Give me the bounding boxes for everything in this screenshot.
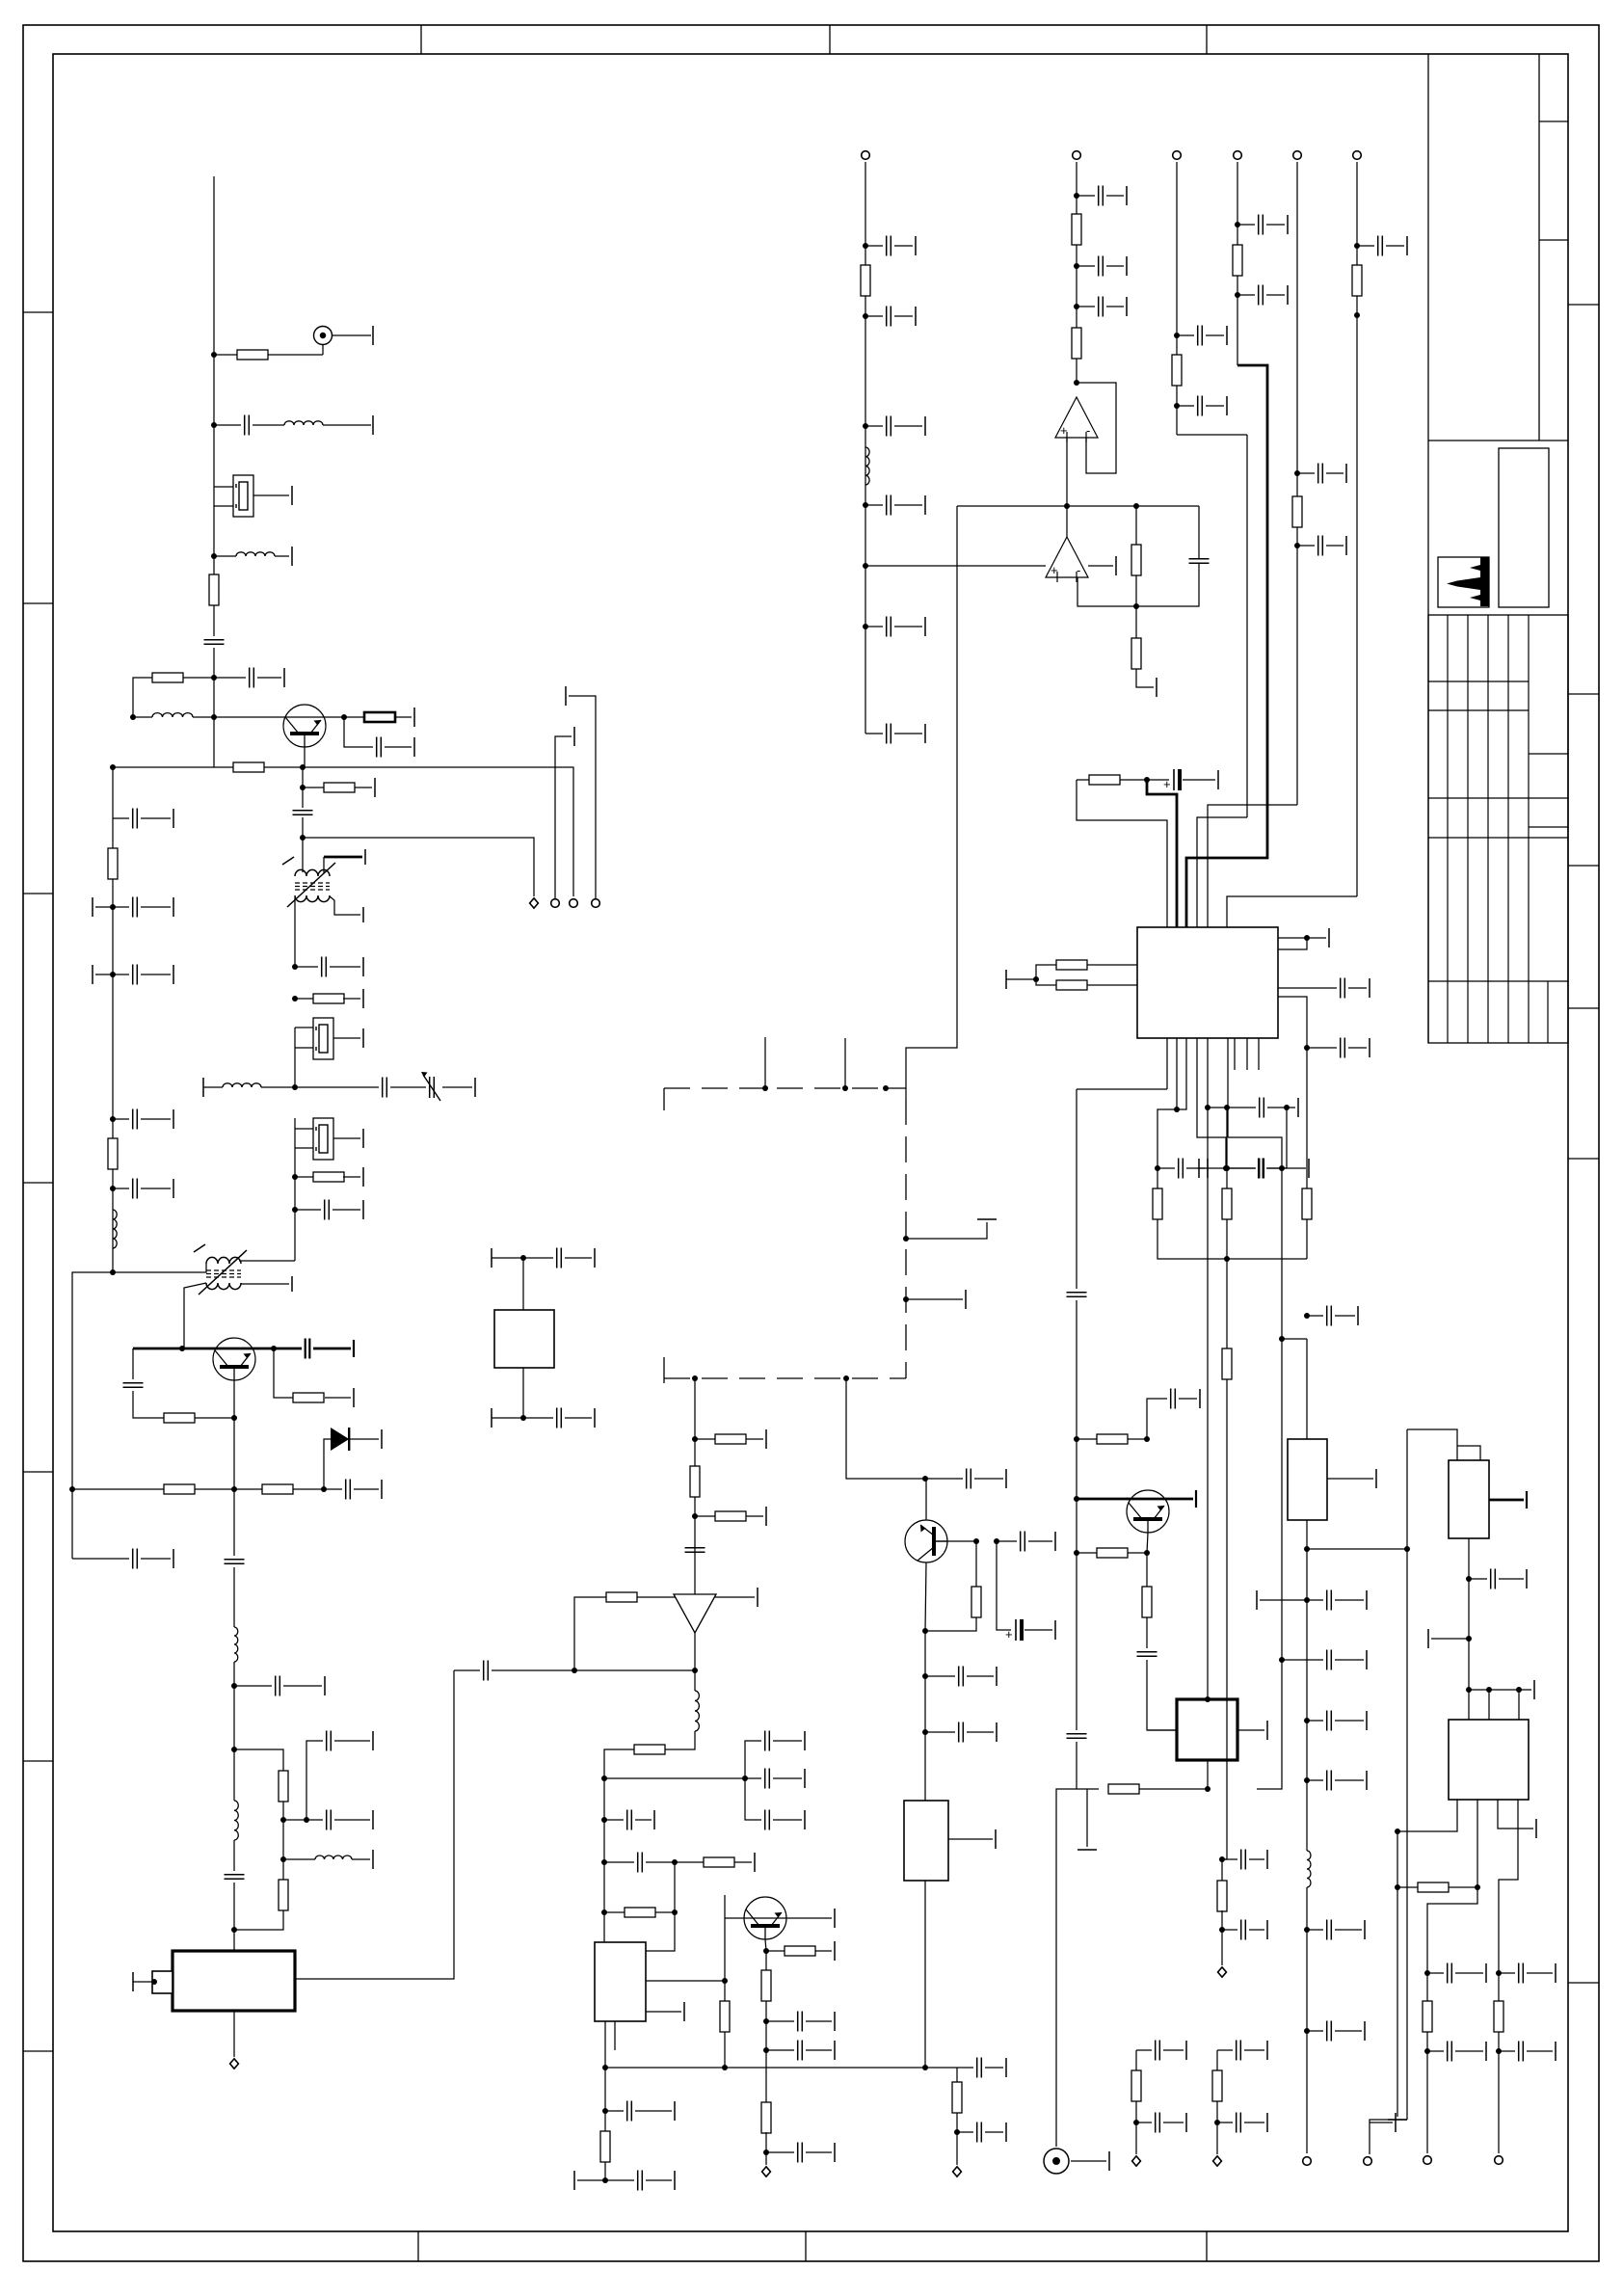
R31	[861, 265, 870, 296]
junction	[722, 2065, 728, 2070]
wire	[350, 1438, 379, 1440]
L6	[234, 1627, 238, 1662]
wire	[766, 1950, 785, 1952]
terminal	[995, 1829, 997, 1849]
svg-text:+: +	[1163, 777, 1171, 791]
U3	[1137, 927, 1278, 1038]
wire	[806, 2020, 832, 2022]
wire	[1244, 2122, 1264, 2123]
wire	[454, 1669, 480, 1671]
wire	[1260, 1599, 1307, 1601]
wire	[765, 1951, 767, 1970]
junction	[602, 2108, 608, 2114]
junction	[922, 1476, 928, 1482]
junction	[762, 1085, 768, 1091]
capacitor C2	[887, 307, 891, 327]
wire	[894, 245, 913, 247]
junction	[1205, 1696, 1211, 1702]
wire	[72, 1272, 113, 1489]
wire	[343, 1176, 360, 1178]
wire	[1469, 1689, 1531, 1691]
title block left edge	[1427, 54, 1429, 1043]
terminal	[1126, 297, 1128, 316]
wire	[604, 1861, 634, 1863]
wire	[214, 486, 233, 488]
wire	[894, 733, 922, 734]
wire	[1348, 987, 1367, 989]
R28	[600, 2131, 610, 2162]
R41	[1056, 960, 1087, 970]
junction	[1074, 193, 1079, 199]
wire	[71, 1489, 73, 1559]
wire	[1267, 1107, 1287, 1108]
connector pin	[530, 898, 539, 908]
wire	[1455, 1972, 1483, 1974]
bold wire	[313, 1348, 351, 1350]
connector pin	[862, 151, 870, 160]
junction	[572, 1668, 577, 1673]
title strip row	[1539, 120, 1568, 122]
terminal	[1533, 1680, 1535, 1699]
wire	[765, 2001, 767, 2103]
wire	[233, 1840, 235, 1871]
R55	[1222, 1348, 1232, 1379]
terminal	[924, 617, 926, 636]
wire	[1287, 1107, 1295, 1108]
terminal	[834, 2012, 836, 2031]
junction	[110, 904, 116, 910]
bold collector wire	[213, 1348, 302, 1350]
C51	[1327, 1650, 1332, 1670]
RV2	[1449, 1460, 1489, 1538]
junction	[1395, 1884, 1400, 1890]
bold stub	[324, 856, 362, 859]
wire	[195, 1488, 234, 1490]
terminal	[1366, 1590, 1368, 1610]
terminal	[1108, 2151, 1110, 2171]
junction	[110, 1116, 116, 1122]
terminal	[765, 1507, 767, 1526]
C21	[327, 1731, 332, 1751]
wire	[214, 766, 233, 768]
junction	[1354, 243, 1360, 249]
wire	[1286, 1108, 1288, 1168]
rail	[1306, 1339, 1308, 1439]
C27	[765, 1731, 770, 1751]
terminal	[1054, 1620, 1056, 1640]
terminal	[653, 1810, 655, 1829]
C3	[250, 668, 254, 688]
V4 rail	[1237, 162, 1238, 365]
bottom border ticks	[417, 2231, 419, 2261]
pin wire	[1227, 1038, 1229, 1137]
junction	[863, 563, 868, 569]
emitter output wire	[303, 767, 573, 896]
terminal	[683, 2002, 685, 2021]
wire	[214, 354, 238, 356]
wire	[334, 1740, 370, 1742]
junction	[1466, 1576, 1472, 1582]
terminal	[1266, 1920, 1268, 1939]
terminal	[1005, 1469, 1007, 1488]
wire	[1237, 294, 1255, 296]
wire	[344, 717, 373, 747]
R8	[313, 1172, 344, 1182]
wire	[233, 1567, 235, 1627]
terminal	[1308, 1159, 1310, 1178]
wire	[1427, 1887, 1477, 1973]
wire	[113, 1188, 129, 1189]
wire	[715, 1596, 755, 1598]
wire	[294, 1028, 296, 1048]
wire	[766, 2020, 794, 2022]
wire	[1217, 2049, 1233, 2051]
wire	[956, 2113, 958, 2165]
wire	[442, 1086, 472, 1088]
CV1	[421, 1072, 440, 1101]
wire	[294, 897, 296, 967]
junction	[973, 1538, 979, 1544]
wire	[985, 2131, 1003, 2133]
wire	[1498, 2032, 1500, 2153]
wire	[522, 1368, 524, 1418]
terminal	[1005, 2122, 1007, 2142]
wire	[967, 1731, 994, 1733]
C36	[638, 2171, 643, 2191]
wire	[1066, 438, 1068, 506]
wire	[141, 1118, 171, 1120]
wire	[334, 1819, 370, 1821]
wire	[646, 1861, 675, 1863]
R18	[690, 1466, 700, 1497]
wire	[1307, 1779, 1323, 1781]
terminal	[674, 2171, 676, 2190]
wire	[1348, 1047, 1367, 1049]
junction	[179, 1346, 185, 1351]
wire	[257, 677, 281, 679]
junction	[1395, 1829, 1400, 1834]
wire	[604, 2162, 606, 2180]
R29	[971, 1587, 981, 1617]
wire	[1148, 1729, 1177, 1731]
wire	[1199, 1167, 1227, 1169]
right border ticks	[1568, 304, 1599, 306]
C2	[204, 640, 225, 645]
Q4	[905, 1520, 947, 1562]
wire	[925, 1562, 926, 1631]
wire	[1088, 565, 1113, 567]
wire	[324, 1439, 331, 1489]
C39	[1005, 1619, 1024, 1642]
terminal	[1185, 2041, 1187, 2060]
terminal	[573, 2171, 575, 2190]
wire	[1426, 1973, 1428, 2001]
L10	[865, 447, 869, 485]
C59	[1327, 1920, 1332, 1940]
wire	[294, 1148, 296, 1261]
U4	[674, 1594, 716, 1633]
R35	[1072, 328, 1081, 359]
U5	[595, 1942, 646, 2021]
junction	[1279, 1657, 1285, 1663]
wire	[283, 1858, 315, 1860]
C69	[1237, 2113, 1241, 2133]
wire	[1249, 1858, 1264, 1860]
oscillator output wire	[295, 1670, 454, 1979]
R22	[704, 1857, 734, 1867]
terminal	[1226, 396, 1228, 415]
terminal	[1156, 678, 1157, 697]
junction	[1466, 1687, 1472, 1693]
F3	[313, 1118, 333, 1160]
wire	[694, 1633, 696, 1670]
terminal	[565, 686, 567, 706]
terminal	[362, 907, 364, 922]
C40	[959, 1667, 964, 1687]
wire	[906, 1222, 987, 1239]
terminal	[834, 2041, 836, 2060]
wire	[865, 733, 883, 734]
wire	[1427, 1972, 1444, 1974]
wire	[141, 1558, 171, 1560]
junction	[1205, 1105, 1211, 1110]
terminal	[1375, 1469, 1377, 1488]
wire	[184, 1283, 206, 1348]
wire	[1077, 1788, 1099, 1790]
RV1	[1288, 1439, 1327, 1520]
wire	[605, 2110, 624, 2112]
wire	[283, 1685, 322, 1687]
wire	[302, 817, 304, 872]
terminal	[372, 326, 374, 345]
junction	[231, 1415, 237, 1421]
connector pin	[1173, 151, 1182, 160]
wire	[1106, 195, 1124, 197]
company logo box	[1438, 557, 1489, 607]
terminal	[1266, 2041, 1268, 2060]
wire	[1266, 1167, 1282, 1169]
R5	[233, 762, 264, 772]
wire	[1226, 1167, 1255, 1169]
pin stub	[1246, 1038, 1248, 1070]
junction	[520, 1255, 526, 1261]
pin wire	[1166, 1038, 1168, 1089]
wire	[1136, 564, 1199, 606]
Q3	[744, 1897, 786, 1939]
pin wire	[1397, 1800, 1457, 1831]
C62	[1448, 1963, 1452, 1984]
terminal	[291, 486, 293, 505]
main connector	[1044, 2149, 1069, 2174]
wire	[1307, 2030, 1323, 2032]
junction	[1294, 470, 1300, 476]
wire	[1147, 1399, 1167, 1439]
wire	[1024, 1629, 1052, 1631]
junction	[231, 1683, 237, 1689]
capacitor C12	[1259, 285, 1264, 306]
wire	[330, 966, 360, 968]
wire	[1157, 1167, 1175, 1169]
wire	[1297, 472, 1315, 474]
rail	[1228, 1137, 1282, 1168]
C37	[967, 1469, 971, 1489]
terminal	[1555, 2042, 1556, 2061]
R13	[293, 1393, 324, 1402]
wire	[1527, 1972, 1553, 1974]
pin wire	[1197, 1038, 1226, 1168]
terminal	[362, 989, 364, 1008]
wire	[1071, 2160, 1106, 2162]
wire	[324, 1488, 342, 1490]
capacitor C13	[1318, 464, 1323, 484]
wire	[274, 1348, 293, 1398]
wire	[746, 1515, 763, 1517]
wire	[1307, 937, 1326, 939]
wire	[1136, 2049, 1152, 2051]
wire	[355, 787, 372, 788]
wire	[1206, 334, 1224, 336]
C72	[1260, 1098, 1264, 1118]
wire	[1077, 265, 1095, 267]
wire	[141, 906, 171, 908]
wire	[773, 1740, 802, 1742]
wire	[1198, 506, 1200, 558]
R36	[1172, 355, 1182, 386]
wire	[603, 1778, 605, 1942]
capacitor C5	[887, 617, 891, 637]
terminal	[1388, 2119, 1407, 2121]
wire	[239, 1260, 295, 1262]
terminal	[1198, 1159, 1200, 1178]
svg-text:+: +	[1005, 1627, 1013, 1642]
wire	[1468, 1538, 1470, 1720]
wire	[283, 1819, 306, 1821]
junction	[231, 1747, 237, 1752]
junction	[922, 1628, 928, 1634]
wire	[1135, 2050, 1137, 2071]
junction	[1174, 333, 1180, 338]
terminal	[283, 668, 285, 687]
wire	[1266, 294, 1285, 296]
wire	[894, 315, 913, 317]
junction	[151, 1979, 157, 1985]
C10	[133, 897, 138, 918]
junction	[1496, 2048, 1502, 2054]
junction	[1304, 1718, 1310, 1723]
wire	[344, 716, 364, 718]
wire	[1357, 245, 1374, 247]
terminal	[915, 236, 917, 255]
wire	[1226, 1219, 1228, 1380]
terminal	[381, 1429, 383, 1449]
terminal	[173, 965, 174, 984]
left border ticks	[23, 311, 53, 313]
terminal	[1535, 1819, 1537, 1838]
terminal	[1395, 2113, 1397, 2132]
svg-text:+: +	[1060, 423, 1068, 438]
wire	[569, 696, 596, 903]
antenna net vertical wire	[213, 176, 215, 487]
junction	[1284, 1105, 1290, 1110]
C33	[798, 2041, 803, 2061]
terminal	[1485, 2042, 1487, 2061]
wire	[333, 1137, 360, 1139]
wire	[1077, 1438, 1097, 1440]
wire	[1135, 606, 1137, 638]
wire	[1237, 224, 1255, 226]
R19	[715, 1511, 746, 1521]
wire	[133, 678, 152, 717]
wire	[295, 1176, 314, 1178]
wire	[885, 1088, 906, 1099]
V2 rail	[1076, 162, 1078, 383]
R20	[606, 1592, 637, 1602]
connector pin	[762, 2167, 771, 2176]
R6	[324, 783, 355, 792]
wire	[213, 556, 215, 575]
C65	[1519, 2042, 1524, 2062]
junction	[271, 1346, 277, 1351]
main rail	[1076, 1089, 1078, 1289]
terminal	[491, 1248, 492, 1268]
junction	[110, 764, 116, 770]
connector pin	[1423, 2156, 1432, 2165]
junction	[110, 1186, 116, 1191]
junction	[1424, 2048, 1430, 2054]
wire	[303, 787, 324, 788]
feedback wire	[1077, 383, 1116, 473]
wire	[1249, 1929, 1264, 1931]
wire	[304, 747, 306, 767]
connector pin	[1132, 2156, 1141, 2166]
terminal	[1199, 1389, 1201, 1408]
C68	[1237, 2041, 1241, 2061]
wire	[295, 1147, 313, 1149]
wire	[1147, 1660, 1177, 1730]
junction	[1219, 1927, 1225, 1933]
bold pin wire	[1147, 780, 1177, 927]
junction	[1174, 1107, 1180, 1112]
wire	[523, 1417, 553, 1419]
wire	[1499, 2050, 1515, 2052]
wire	[957, 2067, 973, 2069]
cathedral silhouette	[1447, 557, 1489, 606]
wire	[306, 1741, 323, 1820]
junction	[1133, 503, 1139, 509]
junction	[863, 502, 868, 508]
junction	[1224, 1165, 1230, 1171]
terminal	[1287, 285, 1289, 305]
junction	[1174, 403, 1180, 409]
wire	[141, 817, 171, 819]
wire	[330, 896, 360, 915]
C73	[1260, 1159, 1264, 1179]
svg-text:-: -	[1077, 563, 1080, 577]
terminal	[1406, 236, 1408, 255]
junction	[304, 1817, 309, 1823]
junction	[692, 1513, 698, 1519]
wire	[294, 1048, 296, 1087]
C31	[638, 1853, 643, 1873]
wire	[933, 1540, 976, 1542]
wire	[765, 2132, 767, 2165]
wire	[492, 1669, 695, 1671]
junction	[903, 1296, 909, 1302]
terminal	[1266, 2113, 1268, 2132]
junction	[110, 1269, 116, 1275]
wire	[1282, 1167, 1306, 1169]
C8	[325, 1200, 330, 1220]
